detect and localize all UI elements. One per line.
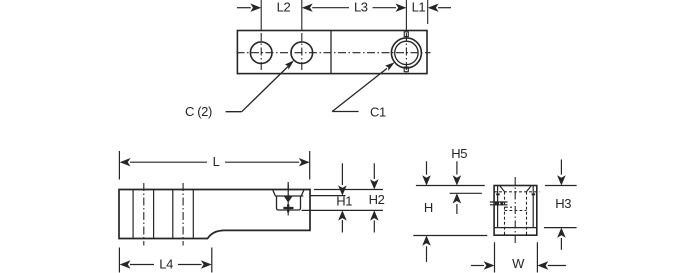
- svg-text:L1: L1: [412, 0, 426, 15]
- svg-text:C (2): C (2): [185, 104, 212, 119]
- svg-text:H5: H5: [451, 146, 467, 161]
- svg-text:L4: L4: [159, 256, 173, 271]
- svg-text:H1: H1: [336, 194, 352, 209]
- svg-text:L3: L3: [354, 0, 368, 15]
- svg-text:W: W: [512, 256, 525, 271]
- svg-text:L: L: [213, 154, 220, 169]
- svg-text:H2: H2: [369, 192, 385, 207]
- svg-text:C1: C1: [370, 105, 386, 120]
- svg-text:H3: H3: [555, 196, 571, 211]
- svg-text:L2: L2: [277, 0, 291, 15]
- svg-text:H: H: [424, 200, 433, 215]
